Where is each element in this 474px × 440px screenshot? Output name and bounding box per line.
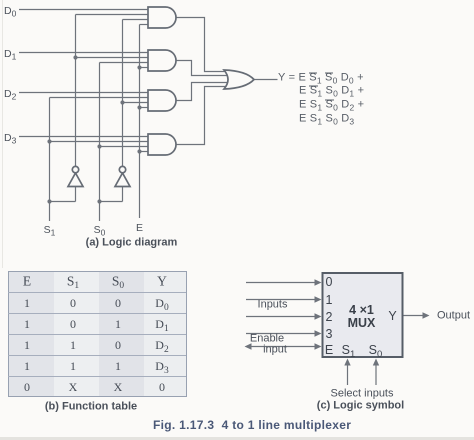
wire S1 to AND gate 3 input 2	[50, 97, 151, 99]
AND gate 4 (E S1 S0 D3)	[148, 134, 176, 155]
annotation Select inputs	[331, 389, 394, 400]
wire AND gate 2 output to OR gate input 2	[176, 61, 228, 76]
wire D1 to AND gate 2 input 1	[19, 52, 150, 54]
equation line 2: E S1bar S0 D1	[299, 86, 364, 97]
table header S1	[67, 274, 79, 288]
arrowhead mux input 0	[315, 279, 322, 285]
wire E branch to AND gate 4 input 4	[140, 151, 151, 153]
wire S0bar inverter U2 output vertical	[122, 20, 124, 167]
OR gate	[224, 70, 254, 89]
wire select input S0 arrow	[375, 362, 377, 385]
wire S1bar to AND gate 1 input 2	[76, 14, 151, 16]
junction dot S1bar/G2	[73, 55, 77, 59]
annotation Enable input	[250, 334, 284, 345]
wire S1bar inverter U1 output vertical	[75, 15, 77, 167]
table header S0	[112, 274, 124, 288]
junction dot S0/G4	[97, 144, 101, 148]
node label D0	[4, 6, 16, 17]
mux pin label Y	[388, 309, 396, 322]
wire S1bar branch to AND gate 2 input 2	[76, 57, 151, 59]
AND gate 3 (E S1 S0bar D2)	[148, 90, 176, 111]
table row separator 1	[8, 292, 186, 293]
wire S0bar branch to AND gate 3 input 3	[123, 102, 151, 104]
wire mux output Y	[404, 315, 425, 317]
mux pin label S1	[342, 344, 356, 357]
junction dot E/G4	[137, 149, 141, 153]
table row separator 3	[8, 334, 186, 335]
wire E branch to AND gate 2 input 4	[140, 67, 151, 69]
wire mux input 3	[246, 333, 318, 335]
node label D2	[4, 88, 16, 99]
table row separator 2	[8, 313, 186, 314]
arrowhead mux enable input right	[315, 343, 322, 349]
wire mux input 0	[246, 282, 318, 284]
wire OR gate output to Y	[254, 79, 278, 81]
mux pin label 2	[326, 310, 333, 323]
arrowhead select S0	[373, 359, 379, 366]
caption (a) Logic diagram	[86, 237, 178, 248]
equation line 4: E S1 S0 D3	[299, 114, 354, 125]
table row 3	[24, 339, 30, 351]
annotation Output	[437, 310, 470, 321]
wire S0 branch to AND gate 4 input 3	[100, 146, 151, 148]
table row separator 5	[8, 376, 186, 377]
arrowhead mux input 3	[315, 330, 322, 336]
junction dot E/G2	[137, 65, 141, 69]
AND gate 1 (E S1bar S0bar D0)	[148, 7, 176, 28]
arrowhead select S1	[344, 359, 350, 366]
equation line 1: Y = E S1bar S0bar D0	[278, 73, 364, 84]
table row 4	[24, 360, 30, 372]
wire E to AND gate 1 input 4	[140, 24, 151, 26]
mux pin label S0	[369, 344, 383, 357]
wire E vertical line	[139, 25, 141, 219]
mux pin label 3	[326, 327, 333, 340]
table header Y	[157, 274, 167, 288]
wire mux input 2	[246, 316, 318, 318]
junction dot E/G3	[137, 105, 141, 109]
node label S1 terminal	[44, 225, 56, 236]
table header E	[23, 274, 31, 288]
table row 5	[24, 381, 30, 393]
AND gate 2 (E S1bar S0 D1)	[148, 50, 176, 71]
wire S0bar to AND gate 1 input 3	[123, 19, 151, 21]
node label D3	[4, 132, 16, 143]
scan artifact: left edge line	[2, 0, 3, 268]
wire D3 to AND gate 4 input 1	[19, 136, 150, 138]
table row 2	[24, 318, 30, 330]
wire AND gate 3 output to OR gate input 3	[176, 83, 228, 101]
node label S0 terminal	[94, 225, 106, 236]
mux pin label 1	[326, 293, 333, 306]
mux pin label 0	[326, 276, 333, 289]
table row separator 4	[8, 355, 186, 356]
scan artifact: bottom edge band	[0, 437, 474, 440]
arrowhead mux output	[423, 312, 430, 318]
wire D2 to AND gate 3 input 1	[19, 92, 150, 94]
wire AND gate 1 output to OR gate input 1	[176, 18, 228, 72]
wire E branch to AND gate 3 input 4	[140, 107, 151, 109]
junction dot S0/inverter U2	[97, 199, 101, 203]
wire S0 to AND gate 2 input 3	[100, 62, 151, 64]
table row 1	[24, 297, 30, 309]
function table background	[8, 271, 187, 398]
wire S0 branch to inverter U2 input	[100, 187, 123, 202]
junction dot S1/G4	[47, 139, 51, 143]
inverter U1 (S1 NOT gate)	[68, 173, 83, 187]
wire D0 to AND gate 1 input 1	[19, 9, 150, 11]
arrowhead mux input 2	[315, 313, 322, 319]
node label E terminal	[136, 222, 143, 233]
wire S1 branch to AND gate 4 input 2	[50, 141, 151, 143]
caption (c) Logic symbol	[317, 400, 404, 411]
wire mux enable input E	[248, 346, 318, 348]
arrowhead mux enable input left	[245, 343, 252, 349]
wire select input S1 arrow	[347, 362, 349, 385]
mux title 4x1	[349, 304, 374, 317]
mux title MUX	[348, 316, 376, 329]
junction dot S0bar/G3	[120, 100, 124, 104]
wire mux input 1	[246, 299, 318, 301]
wire S0 vertical line	[99, 63, 101, 222]
equation line 3: E S1 S0bar D2	[299, 100, 364, 111]
wire S1 branch to inverter U1 input	[50, 187, 76, 202]
MUX symbol box	[323, 273, 403, 357]
junction dot S1/inverter U1	[47, 199, 51, 203]
arrowhead mux input 1	[315, 296, 322, 302]
wire AND gate 4 output to OR gate input 4	[176, 87, 228, 145]
node label D1	[4, 48, 16, 59]
wire S1 vertical line	[49, 98, 51, 222]
figure caption	[153, 419, 351, 431]
caption (b) Function table	[45, 402, 137, 413]
inverter U2 (S0 NOT gate)	[115, 173, 130, 187]
annotation Inputs	[258, 300, 288, 311]
mux pin label E	[325, 344, 333, 357]
